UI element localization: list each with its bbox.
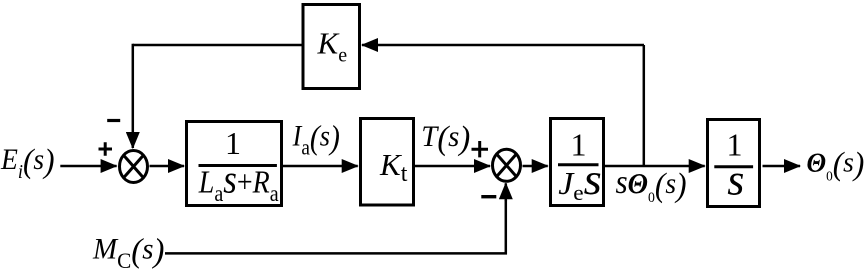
value La s+Ra denominator of G1 — [198, 159, 279, 207]
wire block GS to output — [763, 165, 801, 168]
wire block Ke output left — [133, 44, 302, 47]
wire feedback top to block Ke — [362, 44, 644, 47]
fraction bar of GJ — [558, 163, 599, 166]
plus sign at summing junction S1 — [99, 142, 113, 155]
svg-text:Las+Ra: Las+Ra — [198, 159, 279, 207]
plus sign at summing junction S2 — [472, 141, 489, 157]
node Theta0(s) output label — [807, 145, 865, 184]
fraction bar of GS — [714, 165, 753, 168]
wire block G1 to block Kt — [283, 165, 358, 168]
block G1 1/(La s+Ra) — [187, 122, 282, 206]
node T(s) label — [421, 119, 470, 157]
node sTheta0(s) label — [616, 164, 687, 206]
wire MC(s) bottom horizontal — [165, 200, 506, 253]
minus sign above summing junction S1 — [107, 119, 120, 122]
wire takeoff vertical up from node — [643, 45, 646, 166]
wire feedback down into summing junction S1 — [132, 44, 135, 148]
node Ia(s) label — [292, 119, 340, 160]
svg-text:s: s — [727, 156, 744, 205]
minus sign below summing junction S2 — [481, 195, 496, 198]
wire summing junction S1 to block G1 — [150, 165, 185, 168]
fraction bar of G1 — [199, 164, 277, 167]
wire block Kt to summing junction S2 — [415, 165, 490, 168]
wire block GJ to block GS with takeoff node — [605, 165, 705, 168]
summing junction S2 — [493, 149, 521, 181]
value Kt — [379, 147, 408, 187]
wire summing junction S2 to block GJ — [523, 165, 548, 168]
block GS 1/s — [708, 120, 760, 207]
node Ei(s) input label — [0, 143, 55, 183]
svg-text:T(s): T(s) — [421, 119, 470, 157]
block GJ 1/(Je s) — [551, 119, 604, 206]
wire input Ei(s) to summing junction S1 — [60, 165, 116, 168]
block Ke — [303, 5, 360, 89]
summing junction S1 — [120, 151, 148, 183]
block Kt — [361, 119, 414, 206]
wire arrow up into summing junction S2 — [505, 183, 508, 201]
value Je s denominator of GJ — [558, 155, 602, 205]
value Ke — [317, 26, 348, 67]
node MC(s) disturbance label — [92, 232, 164, 273]
svg-text:1: 1 — [225, 125, 241, 161]
